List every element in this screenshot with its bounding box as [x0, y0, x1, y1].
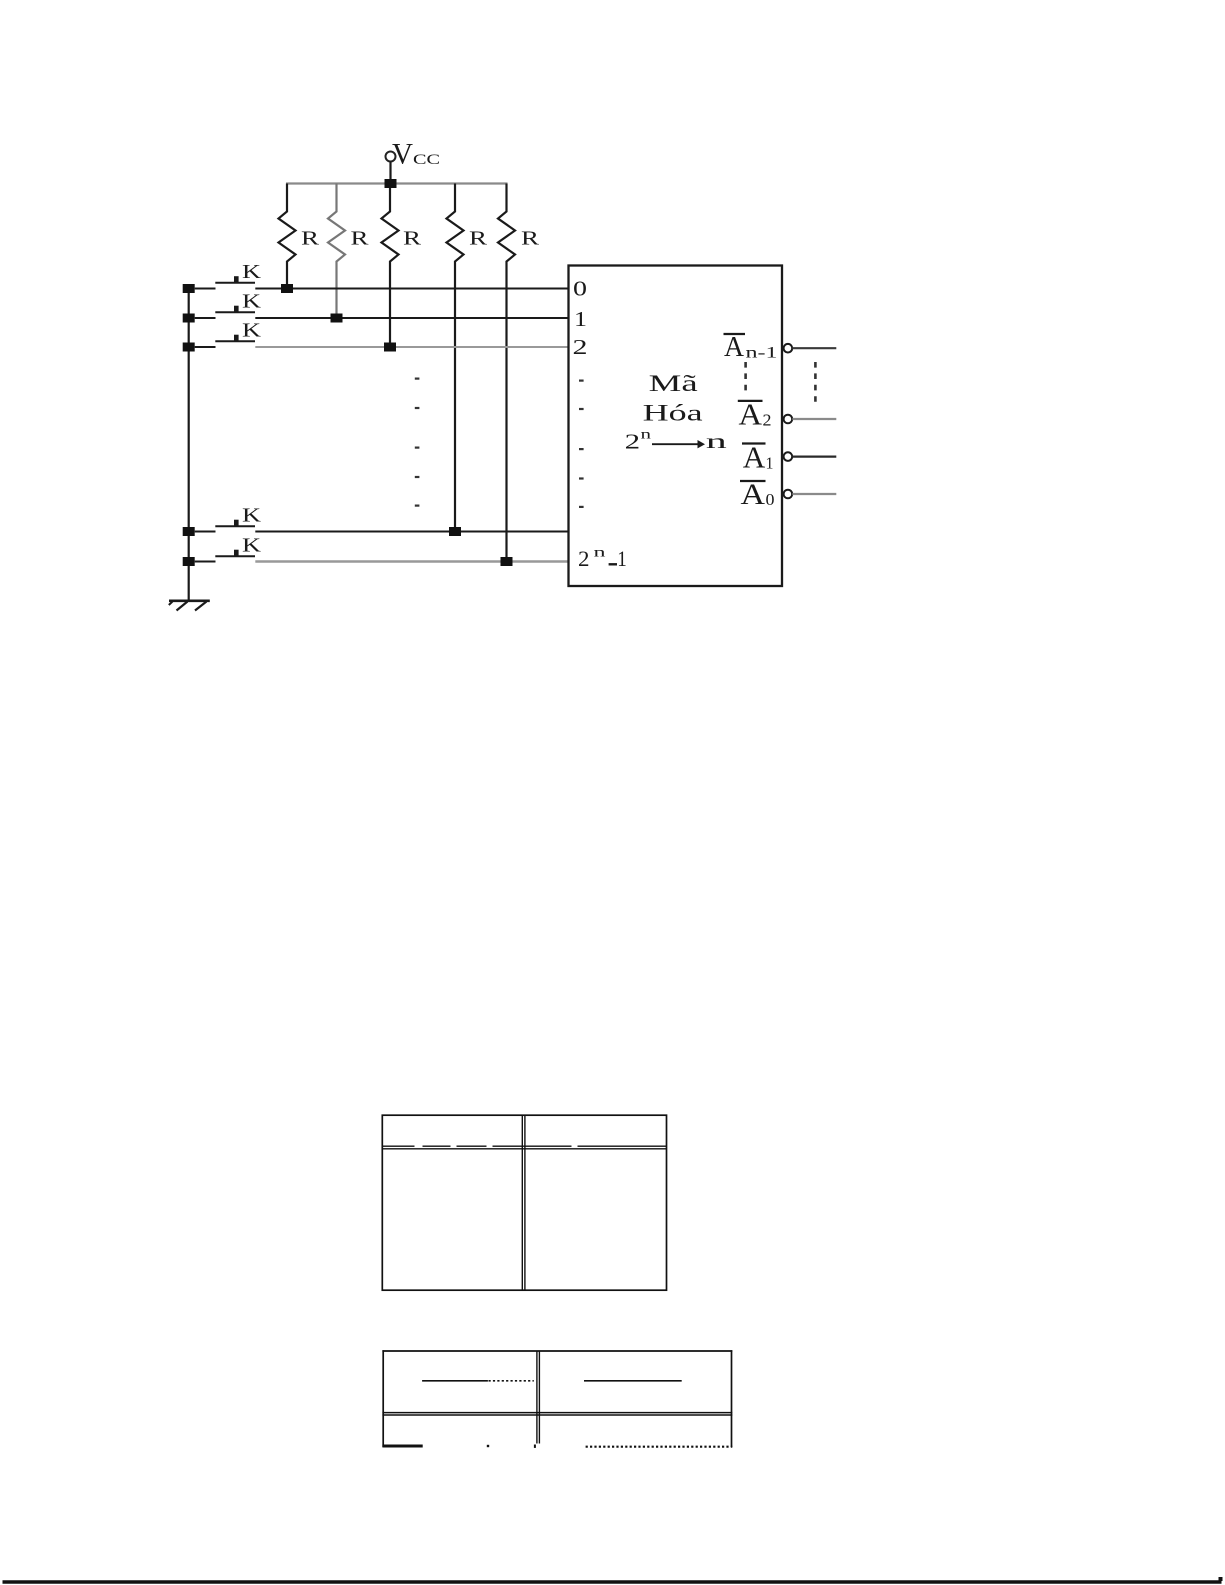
svg-text:Hóa: Hóa: [643, 401, 703, 426]
svg-text:2: 2: [763, 411, 772, 430]
svg-text:2: 2: [578, 546, 590, 571]
svg-text:A: A: [739, 396, 763, 431]
svg-text:2: 2: [573, 335, 588, 359]
svg-text:0: 0: [573, 277, 587, 301]
svg-text:R: R: [351, 228, 370, 250]
svg-text:K: K: [242, 291, 262, 313]
svg-text:2: 2: [625, 430, 641, 454]
svg-text:R: R: [301, 228, 320, 250]
svg-text:n-1: n-1: [746, 345, 778, 362]
svg-text:K: K: [242, 535, 262, 557]
svg-text:1: 1: [617, 546, 627, 571]
svg-text:R: R: [403, 228, 422, 250]
svg-text:A: A: [743, 440, 766, 475]
svg-text:CC: CC: [413, 152, 440, 168]
svg-text:A: A: [741, 478, 766, 511]
svg-text:R: R: [521, 228, 540, 250]
svg-text:0: 0: [766, 490, 775, 509]
svg-text:n: n: [641, 427, 652, 442]
svg-text:1: 1: [766, 454, 774, 473]
svg-text:n: n: [706, 431, 727, 453]
svg-text:R: R: [469, 228, 488, 250]
svg-text:K: K: [242, 505, 262, 527]
svg-text:A: A: [724, 332, 745, 363]
svg-text:V: V: [392, 138, 413, 171]
svg-text:n: n: [594, 546, 606, 561]
svg-text:K: K: [242, 320, 262, 342]
svg-text:Mã: Mã: [649, 371, 698, 396]
svg-text:K: K: [242, 261, 262, 283]
svg-text:1: 1: [574, 307, 587, 331]
